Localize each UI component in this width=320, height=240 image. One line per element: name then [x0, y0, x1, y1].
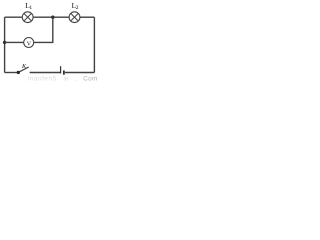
- svg-text:le: le: [64, 76, 69, 82]
- svg-text:2: 2: [76, 5, 79, 11]
- battery long plate: [60, 66, 62, 73]
- watermark text: [28, 76, 98, 83]
- node junction dot on left rail: [3, 41, 6, 44]
- svg-text:V: V: [27, 40, 32, 47]
- wire top-middle: L1 to L2: [33, 16, 69, 18]
- lamp L1: [22, 12, 33, 23]
- switch K lever: [19, 67, 29, 72]
- wire switch to battery: [30, 72, 61, 74]
- svg-text:.: .: [75, 76, 77, 82]
- wire top-right: L2 to right rail: [80, 16, 95, 18]
- wire voltmeter right branch rising to node between lamps: [34, 17, 53, 42]
- wire bottom-left from rail to switch: [5, 72, 18, 74]
- wire left rail: [4, 17, 6, 72]
- svg-text:manfen5: manfen5: [28, 76, 57, 82]
- switch K pivot dot: [17, 71, 20, 74]
- battery short plate: [63, 70, 65, 74]
- node junction dot between lamps: [51, 16, 54, 19]
- svg-text:K: K: [21, 63, 27, 70]
- lamp L2: [69, 12, 80, 23]
- wire top-left: from left rail to lamp L1: [5, 16, 23, 18]
- voltmeter U1: [24, 38, 34, 48]
- wire right rail: [93, 17, 95, 72]
- svg-text:Com: Com: [83, 76, 98, 82]
- wire voltmeter left branch: [5, 41, 24, 43]
- wire battery to right rail: [65, 72, 95, 74]
- svg-text:1: 1: [29, 5, 32, 11]
